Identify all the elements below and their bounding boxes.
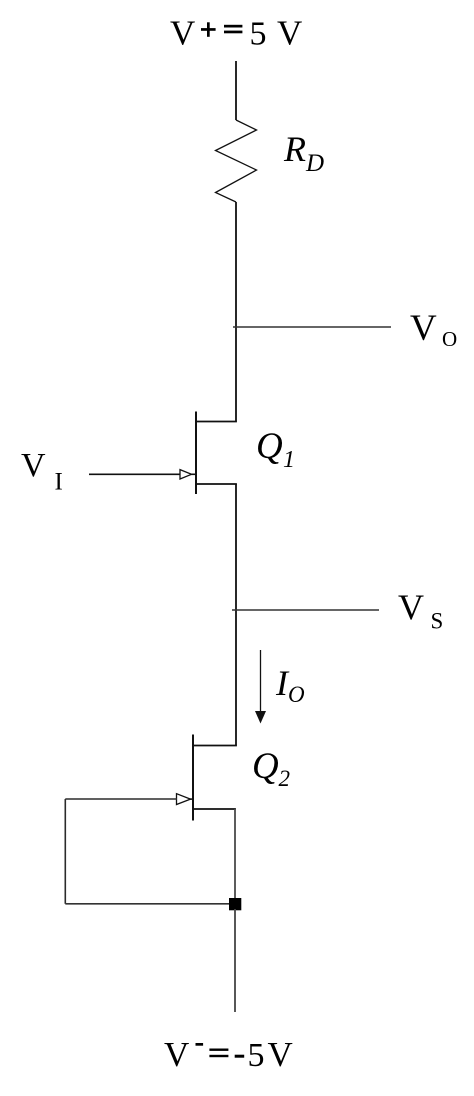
wire Q2 source down to junction [234, 809, 236, 904]
node V+ label "V + = 5 V" [170, 14, 302, 53]
node V- label "V - = - 5 V" [164, 1035, 293, 1074]
wire from V+ down to resistor [235, 61, 237, 120]
Q2 gate arrowhead (open) [177, 794, 191, 805]
resistor label R_D [283, 129, 324, 177]
svg-text:V: V [398, 587, 424, 627]
loop left vertical [64, 799, 66, 904]
Q2 source horizontal [193, 808, 236, 810]
svg-text:V: V [277, 14, 302, 53]
Q1 drain horizontal [196, 421, 237, 423]
junction node (solid square) [229, 898, 241, 910]
svg-text:R: R [283, 129, 306, 169]
svg-text:O: O [288, 682, 305, 707]
label Q2 [252, 746, 290, 791]
svg-text:D: D [305, 150, 324, 177]
Q2 channel bar [192, 735, 194, 821]
svg-text:V: V [410, 308, 437, 349]
wire from resistor down to Q1 drain [235, 202, 237, 422]
loop bottom horizontal [65, 903, 235, 905]
svg-text:O: O [442, 327, 457, 351]
svg-text:S: S [431, 609, 444, 634]
node V_I label [21, 447, 63, 496]
label I_O [275, 663, 305, 707]
svg-text:I: I [55, 469, 63, 496]
Q1 gate arrowhead (open) [180, 470, 192, 479]
svg-text:2: 2 [279, 766, 291, 791]
node V_S label [398, 587, 443, 634]
node V_O label [410, 308, 457, 351]
Q1 gate wire [89, 473, 181, 475]
label Q1 [256, 426, 295, 473]
svg-text:V: V [170, 14, 195, 53]
loop top horizontal [65, 798, 177, 800]
gate feedback loop wires [65, 799, 235, 904]
transistor Q2 [177, 735, 237, 821]
svg-text:5: 5 [250, 16, 267, 53]
transistor Q1 [89, 412, 237, 495]
svg-text:V: V [21, 447, 46, 484]
Q2 drain horizontal [193, 745, 237, 747]
Q1 channel bar [195, 412, 197, 495]
wire stub to V_O [233, 326, 391, 328]
resistor R_D zigzag [216, 120, 257, 202]
svg-text:1: 1 [283, 447, 295, 473]
wire Q1 source down to Q2 drain [235, 484, 237, 746]
wire junction down to V- [234, 909, 236, 1012]
wire stub to V_S [232, 609, 379, 611]
svg-text:Q: Q [256, 426, 283, 467]
svg-text:V: V [164, 1035, 189, 1074]
svg-text:5: 5 [248, 1037, 265, 1074]
current arrow I_O [255, 650, 266, 724]
svg-text:V: V [268, 1035, 293, 1074]
svg-text:Q: Q [252, 746, 279, 787]
Q1 source horizontal [196, 483, 237, 485]
